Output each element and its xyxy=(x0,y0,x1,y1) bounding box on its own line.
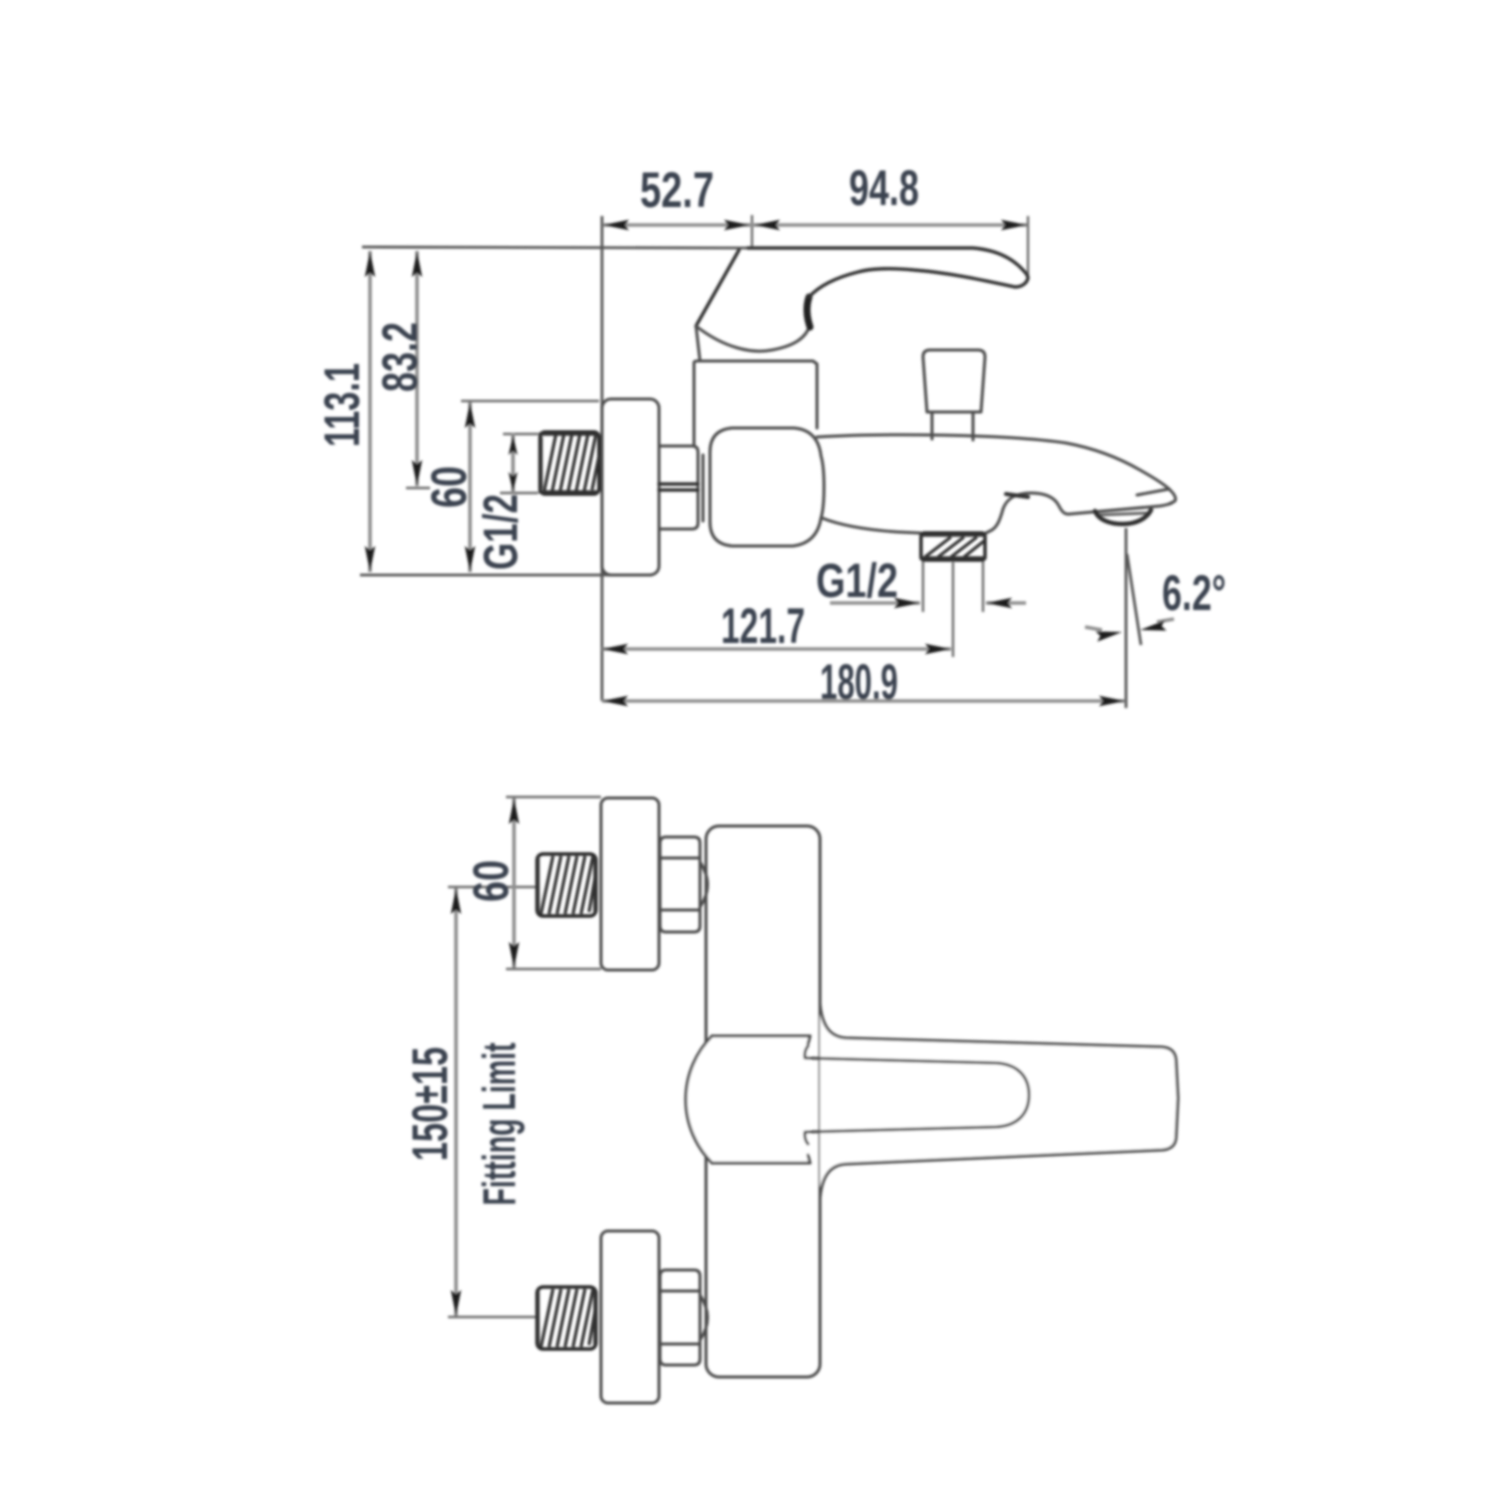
shower-outlet right extension xyxy=(982,560,984,612)
shower-outlet left extension xyxy=(922,560,924,612)
shower-outlet centre line xyxy=(952,562,954,657)
arrow 52.7 right xyxy=(724,220,750,230)
svg-text:121.7: 121.7 xyxy=(721,598,805,654)
cartridge bulb housing xyxy=(710,428,824,546)
dimension line 52.7 / 94.8 xyxy=(603,223,1027,227)
upper hex nut (front) xyxy=(660,837,700,932)
dimension line 121.7 xyxy=(602,647,951,651)
arrow G1/2 bottom xyxy=(509,472,518,492)
upper nut chamfer arc xyxy=(700,862,708,907)
svg-text:94.8: 94.8 xyxy=(849,160,919,216)
top extension line y=247 (lever top datum) xyxy=(362,247,748,248)
svg-text:83.2: 83.2 xyxy=(372,322,428,392)
dimension line 113.1 xyxy=(368,251,372,572)
arrow G1/2 outlet left xyxy=(894,598,920,608)
collar between nut and bulb xyxy=(702,455,705,521)
lower hex nut (front) xyxy=(660,1270,700,1365)
150 bottom extension xyxy=(448,1316,536,1318)
arrow 113.1 top xyxy=(365,251,375,277)
spout underside xyxy=(822,493,1172,533)
arrow 180.9 left xyxy=(602,696,628,706)
arrow 113.1 bottom xyxy=(365,546,375,572)
angle arrow right xyxy=(1139,620,1166,635)
arrow 180.9 right xyxy=(1099,696,1125,706)
lever elbow (dark bend) xyxy=(807,297,810,327)
arrow 52.7 left xyxy=(603,220,629,230)
aerator bowl (dark) xyxy=(1095,510,1151,524)
hand-shower outlet thread xyxy=(921,533,985,560)
dimension line 60 (side view) xyxy=(468,402,472,572)
tick extension at handle pivot x=752 xyxy=(751,215,753,247)
arrow 60 top xyxy=(465,402,475,428)
svg-text:52.7: 52.7 xyxy=(640,162,714,218)
spout outlet vertical reference (6.2 deg vertex) xyxy=(1125,528,1128,708)
diverter knob xyxy=(923,350,985,412)
dimension line 150+-15 xyxy=(454,888,458,1316)
body slab (front) xyxy=(706,826,820,1377)
dome right step notches xyxy=(808,1036,810,1163)
angle arrow left xyxy=(1095,627,1122,642)
dimension line 60 (front view) xyxy=(512,798,516,968)
diverter stem xyxy=(932,412,973,440)
arrow 94.8 left xyxy=(754,220,780,230)
underside flick mark xyxy=(1006,494,1028,497)
neck lower edge segment xyxy=(696,326,700,361)
G1/2 wall thread (side) xyxy=(540,432,599,494)
arrow G1/2 outlet right xyxy=(986,598,1012,608)
angle arrow tail right xyxy=(1157,619,1174,622)
svg-text:150±15: 150±15 xyxy=(402,1047,458,1161)
upper wall thread (front) xyxy=(537,854,596,916)
escutcheon top extension y=401 xyxy=(461,400,599,402)
upper escutcheon (front) xyxy=(601,798,659,970)
handle lever inner outline (front) xyxy=(805,1046,1029,1144)
lower wall thread (front) xyxy=(537,1287,596,1349)
lower nut chamfer arc xyxy=(700,1295,708,1340)
svg-text:Fitting Limit: Fitting Limit xyxy=(473,1043,525,1206)
angle arrow tail left xyxy=(1085,627,1102,630)
svg-text:60: 60 xyxy=(421,466,477,508)
wall escutcheon plate (side) xyxy=(602,399,659,575)
svg-text:60: 60 xyxy=(463,860,519,902)
arrow 60 front bottom xyxy=(509,942,519,968)
arrow 94.8 right xyxy=(1001,220,1027,230)
svg-text:6.2°: 6.2° xyxy=(1162,565,1226,621)
aerator outlet ring (dark) xyxy=(1098,513,1149,515)
handle arm (front) xyxy=(820,1004,1178,1198)
spout mouth inner lip xyxy=(1137,489,1169,495)
arrow G1/2 top xyxy=(509,435,518,455)
arrow 60 front top xyxy=(509,798,519,824)
dimension tail G1/2 outlet right xyxy=(986,601,1026,605)
arrow 83.2 bottom xyxy=(412,460,422,486)
wall face extension line x=602 xyxy=(601,216,604,701)
thread top extension y=434 xyxy=(503,433,538,435)
connection hex nut (side) xyxy=(659,446,698,529)
dimension line 83.2 xyxy=(415,251,419,486)
dimension line G1/2 thread dia xyxy=(511,433,515,493)
150 top extension xyxy=(448,886,536,888)
centre-axis extension tick y=488 xyxy=(406,487,430,489)
60 bottom extension (front view) xyxy=(506,968,601,970)
spout (side profile) xyxy=(817,435,1176,504)
thread bottom extension y=493 xyxy=(500,492,538,494)
bottom extension line y=575 (escutcheon bottom datum) xyxy=(360,574,652,577)
arrow 121.7 left xyxy=(602,644,628,654)
arrow 60 bottom xyxy=(465,546,475,572)
svg-text:G1/2: G1/2 xyxy=(816,555,898,608)
dimension tail G1/2 outlet left xyxy=(830,601,920,605)
handle lever (side view) xyxy=(696,250,739,326)
svg-text:180.9: 180.9 xyxy=(820,654,898,710)
extension line at lever tip x=1028 xyxy=(1027,216,1029,277)
arrow 83.2 top xyxy=(412,251,422,277)
arrow 150 bottom xyxy=(451,1290,461,1316)
nut centre band xyxy=(659,484,698,490)
handle dome (front) xyxy=(686,1036,810,1163)
svg-text:113.1: 113.1 xyxy=(314,363,370,447)
60 top extension (front view) xyxy=(506,796,601,798)
arrow 150 top xyxy=(451,888,461,914)
6.2 deg slanted reference line xyxy=(1127,554,1141,645)
svg-text:G1/2: G1/2 xyxy=(475,494,528,570)
dimension line 180.9 xyxy=(602,699,1125,703)
arrow 121.7 right xyxy=(925,644,951,654)
lower escutcheon (front) xyxy=(601,1231,659,1403)
valve body column xyxy=(694,361,817,446)
